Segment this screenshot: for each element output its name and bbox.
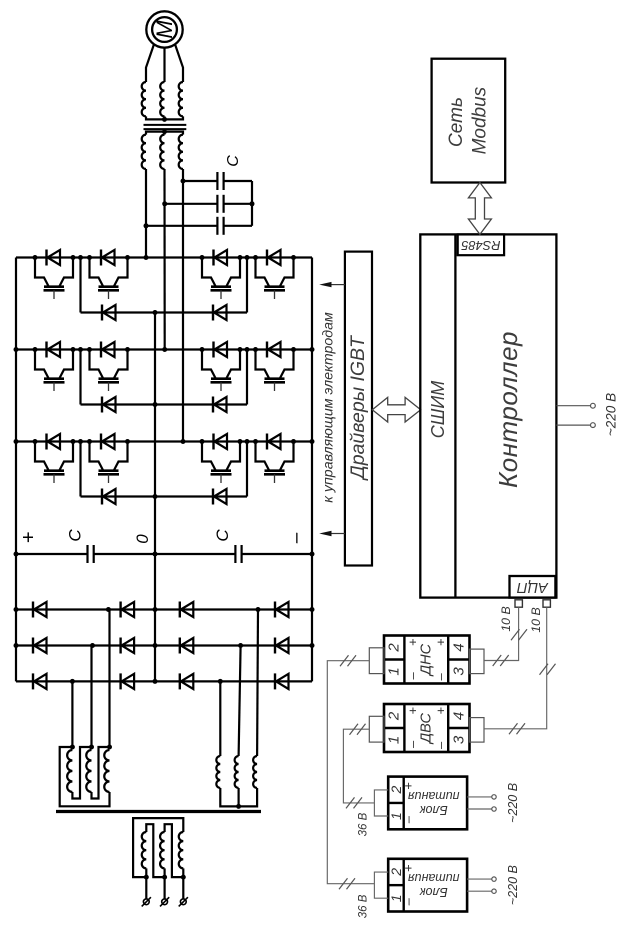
clamp diode VD2.5: [101, 397, 103, 413]
wire driver arrow: [331, 284, 345, 286]
diode VD1.1 antiparallel: [45, 250, 47, 266]
terminal PSU 1 220V a: [492, 795, 496, 799]
connector stub left: [369, 716, 384, 742]
terminal mains input: [180, 899, 186, 905]
inductor L1 lower winding phase B: [160, 135, 164, 169]
slash mark: [346, 797, 355, 808]
svg-text:36 В: 36 В: [358, 812, 370, 836]
slash mark 2 wires: [509, 723, 518, 734]
svg-text:+: +: [401, 782, 416, 790]
inductor L1 lower winding phase A: [142, 135, 146, 169]
power supply box 1 (Blok pitaniya): [388, 777, 467, 830]
connector bracket: [374, 872, 388, 898]
wire DC link bus: [16, 553, 88, 555]
svg-text:3: 3: [450, 735, 467, 744]
wire star point: [220, 788, 257, 806]
wire phase B to row 2: [163, 169, 165, 350]
wire controller power lines: [556, 405, 590, 407]
svg-text:2: 2: [386, 643, 403, 653]
wire inverter row 2 (phase leg): [16, 348, 312, 350]
wire driver arrow: [331, 533, 345, 535]
wire inverter row 3 (phase leg): [16, 440, 312, 442]
clamp diode VD1.5: [101, 305, 103, 321]
wire primary leads: [145, 877, 147, 899]
diode VD1.4 antiparallel: [266, 250, 268, 266]
wire rectifier tap to star winding a: [256, 610, 259, 757]
clamp diode VD1.6: [212, 305, 214, 321]
diode VD1.3 antiparallel: [212, 250, 214, 266]
rectifier diode VD22: [119, 638, 121, 654]
node phase tap: [144, 223, 149, 228]
terminal PSU 2 220V a: [492, 877, 496, 881]
diode VD1.2 antiparallel: [100, 250, 102, 266]
wire PSU output lines: [467, 878, 492, 880]
rectifier diode VD34: [274, 673, 276, 689]
transformer T2 star secondary winding 1: [216, 756, 220, 788]
wire - bus (right): [311, 258, 313, 682]
svg-text:1: 1: [386, 667, 403, 675]
transformer T2 core: [56, 810, 261, 813]
svg-text:ДВС: ДВС: [418, 712, 434, 745]
svg-text:~220 В: ~220 В: [604, 393, 619, 436]
connector stub left: [369, 648, 384, 674]
transformer T2 delta secondary winding 3: [104, 750, 109, 792]
svg-text:36 В: 36 В: [358, 894, 370, 918]
wire DNS to ADC channel 1: [484, 607, 519, 660]
node star point: [236, 804, 241, 809]
wire clamp branch left row 1: [79, 258, 81, 313]
IGBT transistor VT2.3: [202, 350, 216, 379]
svg-text:~220 В: ~220 В: [506, 783, 520, 823]
svg-text:С: С: [213, 529, 232, 542]
arrow PWM bus (driver to controller): [372, 397, 420, 422]
svg-text:АЦП: АЦП: [517, 579, 549, 595]
capacitor C filter 1: [183, 180, 217, 182]
node rectifier neutral row 2: [153, 643, 158, 648]
IGBT transistor VT3.3: [202, 442, 216, 471]
svg-text:–: –: [433, 673, 448, 682]
transformer T2 primary winding 3: [179, 832, 184, 868]
wire lower winding tie: [146, 132, 183, 135]
sensor box DNS (ДНС): [384, 636, 470, 684]
transformer T2 delta secondary winding 1: [67, 750, 72, 792]
node 0 bus junction: [153, 552, 158, 557]
node primary output 1: [144, 875, 149, 880]
power supply box 2 (Blok pitaniya): [388, 859, 467, 912]
wire PSU output lines: [467, 796, 492, 798]
svg-text:ДНС: ДНС: [418, 643, 434, 677]
terminal controller 220V b: [591, 423, 596, 428]
node rectifier neutral row 3: [153, 679, 158, 684]
wire DVS supply from PSU1: [343, 729, 374, 803]
rectifier diode VD33: [179, 673, 181, 689]
node rectifier right tap row 1: [256, 607, 261, 612]
RS485 port box: [458, 234, 504, 255]
node rectifier right tap row 3: [218, 679, 223, 684]
node neutral tap row 2: [153, 402, 158, 407]
slash mark: [350, 724, 359, 735]
node primary output 3: [181, 875, 186, 880]
node rectifier left tap row 1: [106, 607, 111, 612]
svg-text:–: –: [405, 740, 420, 749]
wire clamp line row 1: [81, 311, 248, 313]
node delta input 3: [107, 745, 112, 750]
capacitor C dc-link right: [234, 545, 236, 563]
IGBT transistor VT3.2: [90, 442, 104, 471]
node phase tap: [181, 179, 186, 184]
node + bus junction: [14, 552, 19, 557]
svg-text:–: –: [405, 672, 420, 681]
Modbus network box: [432, 59, 506, 183]
wire rectifier row 3: [16, 680, 312, 682]
wire + bus (left): [15, 258, 17, 682]
svg-text:0: 0: [133, 534, 152, 544]
svg-text:+: +: [18, 532, 40, 544]
svg-text:10 В: 10 В: [499, 606, 513, 631]
wire phase A to row 1: [145, 169, 147, 258]
node phase tap: [162, 201, 167, 206]
capacitor C filter 2: [165, 203, 218, 205]
node neutral tap row 1: [153, 310, 158, 315]
wire 0 bus (neutral vertical): [154, 313, 156, 682]
wire rectifier tap to star winding c: [219, 681, 221, 756]
wire rectifier tap to delta winding c: [71, 681, 73, 747]
IGBT transistor VT1.3: [202, 258, 216, 287]
wire delta links: [60, 747, 110, 806]
transformer T2 star secondary winding 3: [253, 756, 257, 788]
IGBT transistor VT3.4: [256, 442, 270, 471]
wire rectifier tap to delta winding a: [108, 610, 110, 748]
svg-text:–: –: [401, 815, 416, 824]
rectifier diode VD13: [179, 602, 181, 618]
capacitor C filter 3: [146, 225, 217, 227]
rectifier diode VD12: [119, 602, 121, 618]
svg-text:3: 3: [450, 667, 467, 676]
slash mark 2 wires: [493, 655, 502, 666]
node delta input 1: [70, 745, 75, 750]
wire clamp branch right row 2: [246, 350, 248, 405]
IGBT transistor VT1.2: [90, 258, 104, 287]
ADC pin 2: [543, 600, 550, 607]
svg-text:–: –: [433, 741, 448, 750]
sensor box DVS (ДВС): [384, 704, 470, 752]
svg-text:–: –: [401, 897, 416, 906]
rectifier diode VD32: [119, 673, 121, 689]
terminal controller 220V a: [591, 403, 596, 408]
svg-text:–: –: [286, 532, 307, 544]
IGBT transistor VT2.4: [256, 350, 270, 379]
wire capacitor bus: [251, 181, 253, 226]
motor M: [146, 11, 182, 47]
wire DC link bus right: [242, 553, 312, 555]
IGBT transistor VT1.1: [35, 258, 49, 287]
node - bus junction: [310, 552, 315, 557]
svg-text:Драйверы IGBT: Драйверы IGBT: [347, 334, 369, 481]
transformer T2 delta secondary winding 2: [86, 750, 91, 792]
wire clamp line row 3: [81, 495, 248, 497]
connector bracket: [374, 790, 388, 816]
diode VD3.1 antiparallel: [45, 434, 47, 450]
svg-text:4: 4: [450, 643, 467, 651]
svg-text:+: +: [401, 864, 416, 872]
rectifier diode VD24: [274, 638, 276, 654]
wire phase C to row 3: [182, 169, 184, 442]
svg-text:+: +: [405, 638, 420, 646]
wire controller divider: [454, 234, 456, 597]
driver box (Drivery IGBT): [345, 252, 372, 566]
diode VD2.4 antiparallel: [266, 342, 268, 358]
svg-text:С: С: [66, 529, 85, 542]
node neutral tap row 3: [153, 494, 158, 499]
node delta input 2: [89, 745, 94, 750]
svg-text:2: 2: [386, 711, 403, 721]
svg-text:Modbus: Modbus: [470, 86, 491, 154]
rectifier diode VD11: [32, 602, 34, 618]
rectifier diode VD23: [179, 638, 181, 654]
diode VD3.3 antiparallel: [212, 434, 214, 450]
slash mark: [339, 878, 348, 889]
transformer T2 primary winding 1: [142, 832, 147, 868]
diode VD3.2 antiparallel: [100, 434, 102, 450]
IGBT transistor VT1.4: [256, 258, 270, 287]
wire DC link bus middle: [94, 553, 236, 555]
wire rectifier tap to star winding b: [239, 646, 241, 757]
inductor L1 upper winding phase C: [179, 82, 183, 116]
diode VD3.4 antiparallel: [266, 434, 268, 450]
svg-text:СШИМ: СШИМ: [428, 381, 448, 438]
node phase output row 2: [162, 347, 167, 352]
IGBT transistor VT2.1: [35, 350, 49, 379]
svg-text:+: +: [433, 707, 448, 715]
ADC box (ACP): [510, 576, 556, 598]
wire motor leads: [146, 45, 154, 83]
slash mark 2 wires: [511, 629, 520, 640]
terminal mains input: [162, 899, 168, 905]
transformer T2 primary winding 2: [160, 832, 165, 868]
clamp diode VD3.5: [101, 489, 103, 505]
wire upper winding tie: [146, 116, 183, 119]
IGBT transistor VT3.1: [35, 442, 49, 471]
rectifier diode VD14: [274, 602, 276, 618]
wire clamp branch right row 1: [246, 258, 248, 313]
wire clamp branch left row 3: [79, 442, 81, 497]
wire DVS to ADC channel 2: [484, 607, 547, 729]
inductor L1 lower winding phase C: [179, 135, 183, 169]
IGBT transistor VT2.2: [90, 350, 104, 379]
node rectifier left tap row 3: [70, 679, 75, 684]
svg-text:4: 4: [450, 712, 467, 720]
terminal PSU 1 220V b: [492, 807, 496, 811]
node phase output row 1: [144, 255, 149, 260]
wire rectifier row 1: [16, 608, 312, 610]
svg-text:RS485: RS485: [460, 238, 500, 253]
diode VD2.3 antiparallel: [212, 342, 214, 358]
diode VD2.1 antiparallel: [45, 342, 47, 358]
slash mark: [340, 655, 349, 666]
svg-text:~220 В: ~220 В: [506, 865, 520, 905]
diode VD2.2 antiparallel: [100, 342, 102, 358]
transformer T2 star secondary winding 2: [235, 756, 239, 788]
terminal PSU 2 220V b: [492, 889, 496, 893]
connector stub right: [470, 718, 485, 743]
svg-text:10 В: 10 В: [529, 607, 543, 632]
slash mark 2 wires: [540, 664, 549, 675]
svg-text:Сеть: Сеть: [446, 97, 467, 147]
svg-text:1: 1: [386, 736, 403, 744]
svg-text:к управляющим электродам: к управляющим электродам: [320, 312, 336, 503]
wire rectifier row 2: [16, 644, 312, 646]
node rectifier right tap row 2: [238, 643, 243, 648]
arrow Modbus link: [468, 183, 491, 235]
controller box: [420, 234, 556, 597]
svg-text:М: М: [152, 20, 177, 39]
wire clamp line row 2: [81, 403, 248, 405]
terminal mains input: [143, 899, 149, 905]
rectifier diode VD21: [32, 638, 34, 654]
ADC pin 1: [515, 600, 522, 607]
node primary output 2: [162, 875, 167, 880]
capacitor C dc-link left: [86, 545, 88, 563]
rectifier diode VD31: [32, 673, 34, 689]
wire rectifier tap to delta winding b: [90, 646, 92, 748]
svg-text:+: +: [405, 707, 420, 715]
connector stub right: [470, 649, 485, 674]
svg-text:Контроллер: Контроллер: [493, 331, 523, 488]
wire clamp branch right row 3: [246, 442, 248, 497]
svg-text:+: +: [433, 638, 448, 646]
wire clamp branch left row 2: [79, 350, 81, 405]
wire primary links: [133, 818, 183, 877]
transformer T1 core: [144, 124, 187, 126]
svg-text:С: С: [225, 155, 242, 167]
node phase output row 3: [181, 439, 186, 444]
node rectifier neutral row 1: [153, 607, 158, 612]
inductor L1 upper winding phase A: [142, 82, 146, 116]
clamp diode VD2.6: [212, 397, 214, 413]
wire inverter row 1 (phase leg): [16, 256, 312, 258]
wire DNS supply from PSU2: [327, 661, 374, 884]
inductor L1 upper winding phase B: [160, 82, 164, 116]
clamp diode VD3.6: [212, 489, 214, 505]
node rectifier left tap row 2: [90, 643, 95, 648]
